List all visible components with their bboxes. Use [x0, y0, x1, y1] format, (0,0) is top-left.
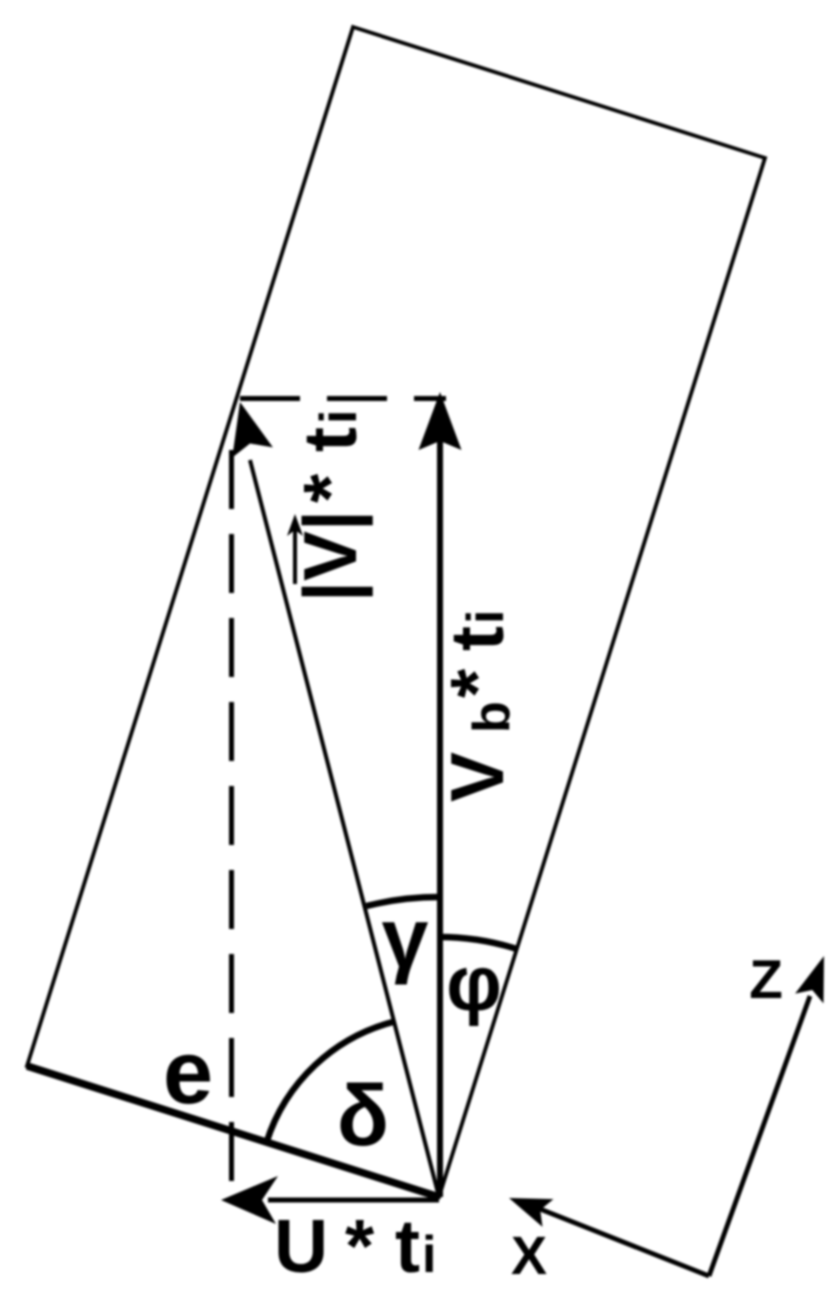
- svg-text:Z: Z: [749, 948, 783, 1010]
- svg-text:U*ti: U*ti: [274, 1204, 436, 1288]
- svg-text:X: X: [511, 1226, 547, 1286]
- svg-text:e: e: [163, 1023, 213, 1123]
- svg-text:δ: δ: [337, 1068, 389, 1164]
- svg-text:φ: φ: [446, 939, 502, 1027]
- svg-text:γ: γ: [382, 891, 429, 985]
